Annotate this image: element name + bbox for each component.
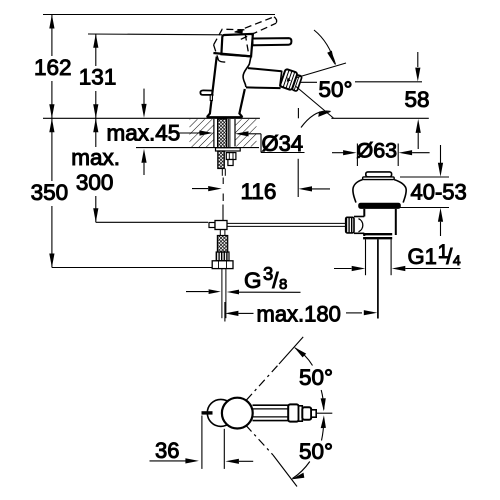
350 bottom reference line <box>52 267 215 269</box>
deck bottom line <box>136 147 259 149</box>
solid lever handle <box>253 38 292 45</box>
svg-text:max.: max. <box>71 145 120 170</box>
tee coupler <box>209 223 215 228</box>
svg-text:350: 350 <box>31 180 69 205</box>
body circle <box>222 398 253 429</box>
body right edge with spout junction <box>243 56 251 87</box>
131 dimension line <box>95 34 97 66</box>
lever rod <box>202 411 213 414</box>
rotation arrowhead on dashed lever <box>235 29 243 33</box>
horizontal pop-up rod to drain <box>227 222 346 224</box>
lower dashed ray <box>246 425 273 455</box>
hose nut <box>212 261 233 269</box>
58 dimension <box>300 81 318 83</box>
bell <box>353 180 406 203</box>
upper 50° arc <box>295 348 313 366</box>
G 3/8 dimension <box>186 291 209 293</box>
svg-text:max.45: max.45 <box>107 120 181 145</box>
deck top line <box>43 117 260 119</box>
coupling rings <box>363 233 392 235</box>
braided hose lower <box>217 236 227 253</box>
svg-text:4: 4 <box>453 252 461 268</box>
spout arm bottom <box>246 86 281 89</box>
svg-text:50°: 50° <box>299 439 333 464</box>
svg-text:Ø63: Ø63 <box>357 139 398 163</box>
pop-up rod knob tab <box>200 90 213 95</box>
spout arm top <box>248 68 282 71</box>
drain body <box>363 209 365 217</box>
spout end edge <box>280 71 282 87</box>
base bottom <box>207 116 243 118</box>
collar <box>288 404 298 421</box>
116 dimension <box>192 188 208 190</box>
aerator (ball spray) <box>280 69 303 92</box>
svg-text:50°: 50° <box>299 365 333 390</box>
upper 50° arc arrow <box>314 30 336 65</box>
svg-text:G1: G1 <box>408 244 437 269</box>
deck hatch left <box>190 119 214 147</box>
131 reference line <box>88 33 222 36</box>
cartridge bottom line overhang <box>213 53 251 56</box>
162 dimension line <box>51 15 53 57</box>
svg-text:max.180: max.180 <box>257 302 341 327</box>
tip <box>311 410 316 417</box>
svg-text:40-53: 40-53 <box>411 180 467 205</box>
mounting nut on stud <box>226 153 236 160</box>
hole edges <box>213 119 215 148</box>
max.45 upper arrow at deck top <box>143 89 145 104</box>
flange (thick black disc) <box>358 203 401 209</box>
Ø63 right arrow <box>399 150 413 155</box>
Ø63 extension lines <box>356 144 358 167</box>
350 dimension line <box>51 118 53 181</box>
pull rod vertical <box>222 205 224 221</box>
svg-text:58: 58 <box>405 87 430 112</box>
centerline <box>317 412 333 414</box>
knurled section <box>216 252 229 261</box>
stud lines <box>227 119 229 148</box>
rod below tee <box>219 230 221 236</box>
svg-text:G: G <box>244 268 262 293</box>
rod port <box>354 216 364 218</box>
lower 50° ray to deck <box>296 87 333 119</box>
max.300 bottom reference line <box>96 221 208 223</box>
hose tube <box>221 169 223 176</box>
svg-text:300: 300 <box>76 170 114 195</box>
center pipe / rod <box>377 239 379 318</box>
upper 50° ray from aerator <box>297 63 346 78</box>
svg-text:50°: 50° <box>319 77 353 102</box>
svg-text:36: 36 <box>155 438 179 463</box>
G3/8 pipe <box>221 269 223 319</box>
svg-text:162: 162 <box>34 55 72 80</box>
top reference line (162 level) <box>43 14 275 16</box>
svg-text:8: 8 <box>279 276 287 293</box>
Ø34 arrow at hole edge <box>235 131 249 136</box>
upper dashed ray <box>246 364 279 400</box>
cartridge housing <box>221 34 253 56</box>
36 dimension <box>201 416 203 469</box>
tailpipe <box>365 239 367 275</box>
body left edge <box>207 57 217 118</box>
svg-text:116: 116 <box>241 179 277 204</box>
threaded shank tube <box>218 119 227 148</box>
max.45 lower arrow at deck bottom <box>141 149 146 163</box>
braided hose upper <box>218 151 225 169</box>
max.300 dimension line <box>95 118 97 147</box>
washer under deck <box>216 148 241 151</box>
G1 1/4 dimension <box>334 268 352 270</box>
knurled rod knob <box>346 217 354 233</box>
max.45 leader arrow into deck <box>179 132 201 134</box>
svg-text:131: 131 <box>79 64 117 89</box>
lower 50° arc arrow <box>301 111 331 127</box>
deck hatch right <box>235 119 257 146</box>
max.180 dimension <box>225 311 239 316</box>
spout tube lines <box>253 404 289 406</box>
aerator nut <box>299 406 303 421</box>
40-53 dimension <box>400 176 449 178</box>
base circle <box>207 399 234 426</box>
push cap <box>366 172 392 177</box>
lower 50° arc <box>292 462 310 479</box>
Ø34 shelf + Ø63 dimension line <box>261 152 305 154</box>
